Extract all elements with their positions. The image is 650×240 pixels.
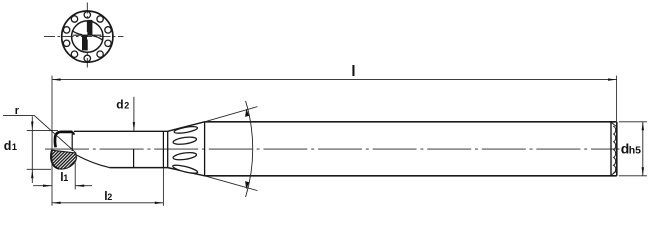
neck bottom line: [110, 167, 168, 169]
d2 leader line: [133, 97, 135, 132]
flute runout ellipse 1: [174, 125, 198, 134]
pocket floor curve: [76, 155, 109, 168]
l arrow right: [608, 78, 617, 80]
l1 arrow left (pointing right): [43, 185, 52, 187]
center edge line: [73, 34, 101, 36]
shank start vertical: [204, 122, 206, 176]
gash end line: [133, 149, 135, 168]
taper cone top: [168, 122, 205, 132]
r leader: [3, 115, 76, 152]
svg-text:l: l: [351, 63, 355, 80]
flute runout ellipse 2: [173, 136, 197, 146]
l2 arrow right: [155, 202, 164, 204]
top insert (end view): [88, 20, 92, 35]
svg-text:2: 2: [124, 101, 129, 111]
svg-text:d: d: [4, 139, 12, 153]
center cross line vertical: [86, 3, 88, 68]
insert pocket back edge: [71, 134, 73, 151]
inner circle: [72, 21, 103, 52]
l2 arrow left: [52, 202, 61, 204]
l1 dimension left segment: [33, 185, 52, 187]
svg-text:2: 2: [107, 192, 112, 202]
hatched carbide insert (side view): [51, 150, 77, 169]
flute curve right: [92, 36, 102, 40]
shank end inner vertical: [610, 122, 612, 176]
bolt hole circles ring: [63, 12, 111, 62]
insert lower-left cutting edge (bold): [51, 151, 59, 169]
d1 dimension line: [31, 116, 33, 183]
l1 extension right: [74, 163, 76, 190]
l extension right: [616, 76, 618, 121]
dh5 arrow top: [642, 122, 644, 131]
taper cone bottom: [168, 168, 205, 176]
shank end wavy line: [613, 126, 616, 173]
angle arc arrow top: [245, 109, 249, 117]
thick cutting edge (nose): [55, 132, 72, 148]
taper angle extension line top: [205, 107, 258, 122]
l1 arrow right (pointing left): [75, 185, 84, 187]
l2 extension right: [162, 168, 164, 206]
svg-text:r: r: [15, 105, 20, 117]
svg-text:1: 1: [63, 173, 68, 183]
l dimension line: [52, 79, 617, 81]
dh5 extension bottom: [619, 175, 647, 177]
shank end chamfer top: [611, 122, 616, 126]
d1 extension top: [27, 129, 58, 131]
shank end chamfer bottom: [611, 171, 616, 175]
l arrow left: [52, 78, 61, 80]
cutting edge hook end: [71, 132, 74, 135]
flute runout ellipse 3: [173, 151, 197, 161]
top profile line (head + neck): [74, 130, 168, 132]
svg-text:h5: h5: [629, 144, 641, 156]
dh5 dimension line: [642, 122, 644, 176]
center cross line horizontal: [44, 36, 124, 38]
neck end vertical: [162, 131, 164, 167]
bottom insert (end view): [82, 35, 86, 50]
flute curve left: [72, 31, 82, 35]
common left datum extension line: [51, 76, 53, 206]
flute runout ellipse 4: [172, 164, 198, 175]
d2 arrow: [133, 122, 135, 131]
outer circle: [62, 11, 113, 62]
dh5 arrow bottom: [642, 167, 644, 176]
dh5 extension top: [619, 121, 647, 123]
shank right edge: [616, 122, 618, 176]
shank bottom line: [205, 175, 617, 177]
svg-text:d: d: [116, 98, 123, 112]
d1 arrow top: [31, 122, 33, 131]
shank top line: [205, 121, 617, 123]
d1 extension bottom: [27, 168, 51, 170]
l1 dimension right segment: [75, 185, 92, 187]
angle arc arrow bottom: [245, 181, 249, 189]
cone start vertical: [167, 131, 169, 167]
l2 dimension line: [52, 202, 163, 204]
taper angle arc: [246, 101, 253, 197]
svg-text:1: 1: [12, 142, 18, 153]
taper angle extension line bottom: [205, 176, 258, 191]
d1 arrow bottom: [31, 170, 33, 179]
tool axis center line: [45, 148, 620, 150]
